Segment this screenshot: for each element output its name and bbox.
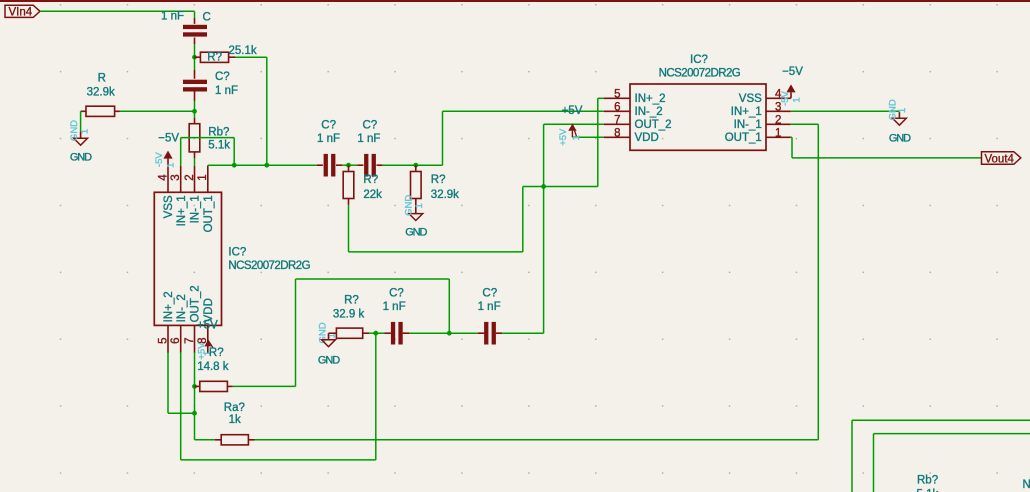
svg-text:IN+_1: IN+_1 — [731, 106, 762, 118]
svg-text:4: 4 — [157, 174, 169, 181]
svg-text:−5V: −5V — [782, 66, 803, 78]
svg-text:8: 8 — [614, 128, 620, 140]
svg-text:+5V: +5V — [197, 320, 218, 332]
svg-text:C?: C? — [321, 120, 336, 132]
svg-text:C?: C? — [215, 71, 230, 83]
svg-text:GND: GND — [405, 227, 427, 239]
svg-text:1 nF: 1 nF — [215, 85, 238, 97]
svg-text:GND: GND — [889, 132, 911, 144]
svg-text:5: 5 — [157, 337, 169, 343]
svg-text:GND: GND — [69, 120, 80, 141]
svg-text:VDD: VDD — [635, 132, 659, 144]
svg-text:32.9k: 32.9k — [87, 86, 115, 98]
svg-text:−5V: −5V — [158, 132, 179, 144]
svg-text:C?: C? — [482, 288, 497, 300]
svg-text:Rb?: Rb? — [917, 474, 938, 486]
svg-text:14.8 k: 14.8 k — [197, 361, 229, 373]
svg-text:1: 1 — [414, 203, 425, 208]
svg-text:1 nF: 1 nF — [317, 133, 340, 145]
svg-text:C: C — [203, 12, 211, 24]
svg-text:6: 6 — [170, 337, 182, 343]
svg-text:OUT_1: OUT_1 — [203, 195, 215, 232]
svg-text:IN-_2: IN-_2 — [635, 106, 663, 118]
svg-text:N: N — [1023, 479, 1030, 491]
svg-text:1: 1 — [571, 135, 582, 140]
svg-text:GND: GND — [70, 151, 92, 163]
svg-text:R: R — [98, 72, 106, 84]
svg-text:25.1k: 25.1k — [229, 45, 257, 57]
svg-text:R?: R? — [209, 347, 224, 359]
svg-text:32.9 k: 32.9 k — [333, 309, 365, 321]
svg-text:Ra?: Ra? — [224, 402, 245, 414]
svg-text:1k: 1k — [229, 414, 241, 426]
svg-text:C?: C? — [389, 288, 404, 300]
svg-text:NCS20072DR2G: NCS20072DR2G — [659, 67, 741, 79]
svg-text:IN-_2: IN-_2 — [176, 294, 188, 322]
svg-text:VSS: VSS — [163, 195, 175, 218]
svg-text:1 nF: 1 nF — [357, 133, 380, 145]
svg-text:1 nF: 1 nF — [383, 301, 406, 313]
svg-text:2: 2 — [184, 174, 196, 180]
svg-text:R?: R? — [431, 174, 446, 186]
svg-text:1: 1 — [897, 108, 908, 113]
svg-text:GND: GND — [318, 354, 340, 366]
svg-text:IC?: IC? — [228, 247, 246, 259]
svg-text:C?: C? — [363, 120, 378, 132]
svg-text:+5V: +5V — [562, 105, 583, 117]
svg-text:NCS20072DR2G: NCS20072DR2G — [228, 260, 310, 272]
svg-text:32.9k: 32.9k — [431, 189, 459, 201]
svg-text:1 nF: 1 nF — [161, 11, 184, 23]
svg-text:7: 7 — [614, 115, 620, 127]
svg-text:1: 1 — [775, 128, 781, 140]
svg-text:5.1k: 5.1k — [208, 140, 230, 152]
svg-text:OUT_1: OUT_1 — [725, 132, 762, 144]
svg-text:R?: R? — [363, 174, 378, 186]
svg-text:OUT_2: OUT_2 — [190, 285, 202, 322]
svg-text:2: 2 — [775, 115, 781, 127]
svg-text:1: 1 — [166, 163, 177, 168]
svg-text:Rb?: Rb? — [208, 126, 229, 138]
svg-text:1: 1 — [197, 174, 209, 180]
svg-text:5.1k: 5.1k — [917, 489, 939, 492]
svg-text:R?: R? — [207, 52, 222, 64]
svg-text:OUT_2: OUT_2 — [635, 119, 672, 131]
svg-text:VIn4: VIn4 — [9, 6, 33, 18]
svg-text:Vout4: Vout4 — [985, 153, 1015, 165]
svg-text:VSS: VSS — [739, 93, 762, 105]
svg-text:IN+_2: IN+_2 — [635, 93, 666, 105]
svg-text:-5V: -5V — [780, 90, 791, 105]
svg-text:22k: 22k — [363, 189, 382, 201]
svg-text:+5V: +5V — [558, 128, 569, 146]
svg-text:7: 7 — [184, 337, 196, 343]
svg-text:IN-_1: IN-_1 — [190, 195, 202, 223]
svg-text:IN+_2: IN+_2 — [163, 291, 175, 322]
svg-text:3: 3 — [170, 174, 182, 180]
svg-text:5: 5 — [614, 89, 620, 101]
svg-text:IN-_1: IN-_1 — [734, 119, 762, 131]
svg-text:1: 1 — [80, 129, 91, 134]
svg-text:R?: R? — [344, 294, 359, 306]
svg-text:1 nF: 1 nF — [478, 301, 501, 313]
svg-text:1: 1 — [791, 97, 802, 102]
svg-text:IN+_1: IN+_1 — [176, 195, 188, 226]
svg-text:6: 6 — [614, 102, 620, 114]
svg-text:IC?: IC? — [690, 54, 708, 66]
svg-text:-5V: -5V — [154, 152, 165, 167]
